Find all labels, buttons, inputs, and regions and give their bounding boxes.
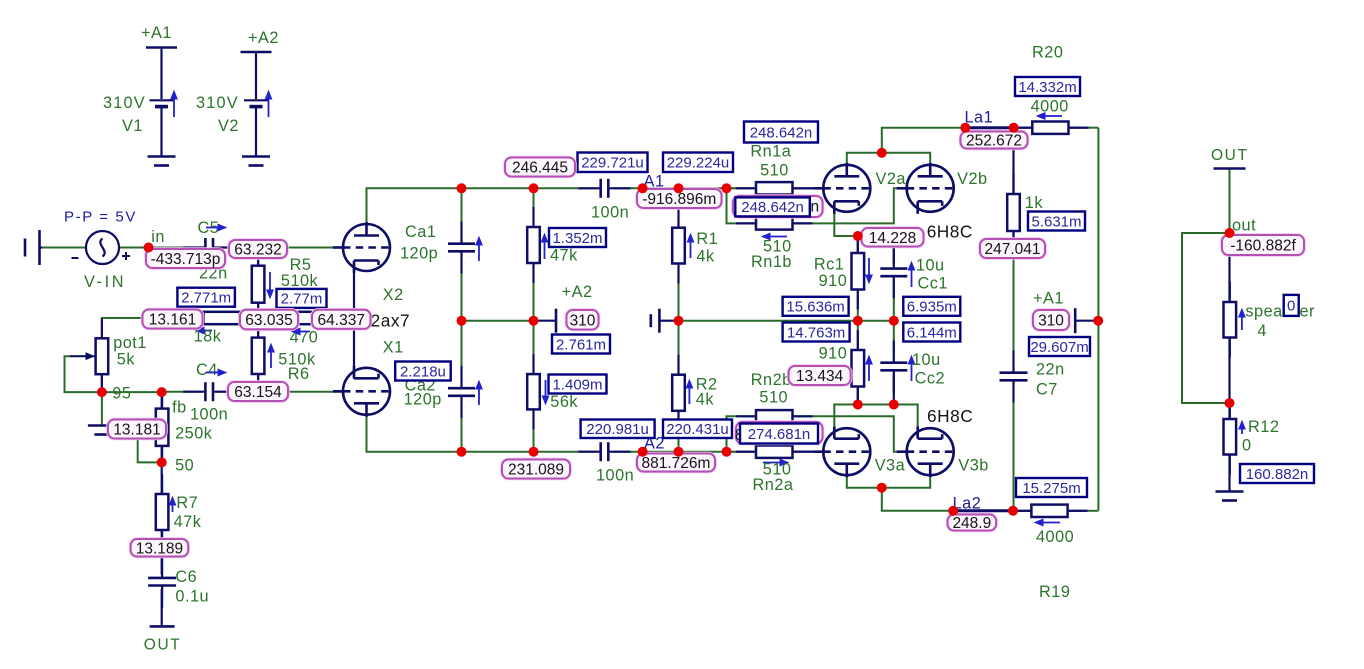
svg-text:95: 95 <box>112 385 131 403</box>
svg-text:910: 910 <box>819 272 848 290</box>
wire bottom rail 100n to Rn2a <box>613 451 757 453</box>
battery V1 arrow <box>171 91 177 117</box>
wire speaker to R12 node <box>1228 338 1230 404</box>
capacitor 100n top <box>579 187 631 189</box>
wire Rn1a to V2a grid <box>793 187 825 189</box>
wire pot row to 18k row <box>102 318 356 338</box>
svg-text:14.332m: 14.332m <box>1018 79 1076 96</box>
tube V3b 6H8C <box>897 426 954 477</box>
tie OUT bottom-left <box>150 625 175 628</box>
charge box 220.431u <box>663 420 732 439</box>
svg-text:0: 0 <box>1242 437 1252 455</box>
svg-text:Rn2b: Rn2b <box>751 371 792 389</box>
wire 47k column <box>533 188 535 227</box>
voltage box -916.896m <box>637 189 722 208</box>
wire R1 column <box>678 188 680 227</box>
svg-text:510: 510 <box>759 389 788 407</box>
current box 160.882n <box>1240 464 1314 483</box>
tie OUT top-right <box>1214 167 1246 170</box>
voltage box 14.228 <box>862 228 924 247</box>
voltage box 13.434 <box>789 366 851 385</box>
svg-text:229.224u: 229.224u <box>667 155 730 172</box>
svg-text:13.161: 13.161 <box>149 312 196 329</box>
svg-text:P-P = 5V: P-P = 5V <box>64 209 137 226</box>
svg-text:6H8C: 6H8C <box>927 222 973 242</box>
junction fb top <box>157 387 167 397</box>
svg-text:1k: 1k <box>1025 194 1044 212</box>
wire 56k column <box>533 321 535 374</box>
battery V1 <box>150 48 174 156</box>
svg-text:13.189: 13.189 <box>136 540 183 557</box>
svg-text:5k: 5k <box>117 351 136 369</box>
capacitor Cc2 <box>893 341 895 393</box>
svg-text:252.672: 252.672 <box>966 133 1022 150</box>
junction mid Cc <box>889 316 899 326</box>
resistor R1 <box>677 208 679 284</box>
svg-text:fb: fb <box>172 399 187 417</box>
wire 13.189 to C6 <box>161 548 163 575</box>
resistor Rn2a <box>736 451 813 453</box>
svg-text:881.726m: 881.726m <box>642 455 711 472</box>
voltage box 246.445 <box>505 158 575 177</box>
wire X2 X1 cathode link <box>353 261 355 379</box>
node box hidden Rn2 <box>736 422 823 444</box>
junction V2 plates <box>877 148 887 158</box>
junction La1 left <box>960 123 970 133</box>
current box 2.761m <box>552 335 610 354</box>
voltage box 310 +A1 <box>1033 310 1069 330</box>
junction bottom Ca2 <box>457 447 467 457</box>
junction A2 a <box>638 447 648 457</box>
ground input <box>25 230 42 265</box>
wire pot wiper loop <box>65 356 98 392</box>
node box hidden Rn1 <box>733 196 823 217</box>
current box 248.642n top <box>744 122 818 143</box>
svg-text:910: 910 <box>819 345 848 363</box>
svg-text:4000: 4000 <box>1036 528 1074 546</box>
resistor 47k upper <box>532 207 534 283</box>
svg-text:310: 310 <box>570 312 596 329</box>
svg-text:10u: 10u <box>912 351 941 369</box>
capacitor Ca1 <box>460 222 462 274</box>
svg-text:R1: R1 <box>696 230 718 248</box>
wire node fb to C4 <box>162 391 202 393</box>
junction top rail Ca1 <box>457 183 467 193</box>
resistor Rc1 910 <box>857 233 859 310</box>
voltage box 63.154 <box>228 382 288 401</box>
tube V2a 6H8C <box>813 163 870 214</box>
resistor speaker <box>1229 282 1231 358</box>
wire C5 to X2 grid <box>217 247 343 249</box>
resistor R7 <box>161 474 163 550</box>
node in dot <box>144 243 154 253</box>
current box 15.636m <box>783 297 849 316</box>
wire top rail X2 plate to 100n <box>367 188 597 225</box>
wire node 50 to R7 <box>161 462 163 494</box>
svg-text:+A2: +A2 <box>562 283 593 301</box>
svg-text:47k: 47k <box>174 513 202 531</box>
source V-IN <box>86 231 119 264</box>
wire R6 leads <box>257 318 259 338</box>
junction +A1 rail <box>1093 316 1103 326</box>
wire La1 to R20 lead <box>1014 127 1033 129</box>
svg-text:14.763m: 14.763m <box>787 324 845 341</box>
wire Cc1 column <box>893 238 895 265</box>
junction out node <box>1225 228 1235 238</box>
tie +A1 battery <box>146 46 177 49</box>
svg-text:spea: spea <box>1245 303 1283 321</box>
current box 6.935m <box>903 297 960 316</box>
junction bottom 56k <box>529 447 539 457</box>
svg-text:in: in <box>151 228 165 246</box>
voltage box 247.041 <box>980 239 1045 258</box>
wire out node to speaker <box>1228 233 1230 302</box>
svg-text:1.352m: 1.352m <box>552 230 602 247</box>
wire pot bottom to node 95 <box>101 374 103 392</box>
charge box 229.224u <box>663 153 733 173</box>
svg-text:1.409m: 1.409m <box>552 376 602 393</box>
svg-text:220.431u: 220.431u <box>666 421 729 438</box>
current box 1.352m <box>549 228 606 247</box>
svg-text:22n: 22n <box>1036 361 1065 379</box>
svg-text:248.642n: 248.642n <box>750 124 813 141</box>
tube V2b 6H8C <box>897 163 954 214</box>
current box 14.332m <box>1015 77 1080 96</box>
svg-text:231.089: 231.089 <box>508 462 564 479</box>
wire right rail <box>1097 128 1099 511</box>
junction node 95 <box>97 387 107 397</box>
tube V3a 6H8C <box>813 426 870 477</box>
svg-text:2.771m: 2.771m <box>181 290 231 307</box>
svg-text:510k: 510k <box>281 272 319 290</box>
svg-text:5.631m: 5.631m <box>1031 213 1081 230</box>
battery V2 arrow <box>265 91 271 117</box>
capacitor Ca2 <box>460 366 462 418</box>
svg-text:246.445: 246.445 <box>512 160 568 177</box>
svg-text:310: 310 <box>1038 313 1064 330</box>
wire Rn2a to V3a grid <box>793 451 825 453</box>
junction La2 right <box>1008 506 1018 516</box>
svg-text:V2b: V2b <box>957 170 987 188</box>
svg-text:13.181: 13.181 <box>113 422 160 439</box>
voltage box 231.089 <box>502 460 570 479</box>
svg-text:510: 510 <box>760 162 789 180</box>
svg-text:2.218u: 2.218u <box>400 363 446 380</box>
svg-text:4k: 4k <box>696 391 715 409</box>
svg-text:V2: V2 <box>218 117 239 135</box>
junction mid Ca <box>457 316 467 326</box>
svg-text:V2a: V2a <box>876 170 907 188</box>
svg-text:160.882n: 160.882n <box>1246 466 1309 483</box>
wire R5 leads <box>257 258 259 266</box>
voltage box -160.882f <box>1222 235 1304 255</box>
voltage box 252.672 <box>961 132 1028 150</box>
current box 2.771m <box>177 288 235 307</box>
wire mid rail right <box>679 320 894 322</box>
wire Rc2 column <box>857 321 859 350</box>
voltage box 63.035 <box>240 310 298 330</box>
inductor La2 <box>953 509 1013 512</box>
resistor R2 <box>677 355 679 431</box>
junction mid 47k56k <box>529 316 539 326</box>
svg-text:Cc1: Cc1 <box>918 275 948 293</box>
svg-text:15.636m: 15.636m <box>786 299 844 316</box>
voltage box 13.189 <box>131 539 189 557</box>
junction A2 Rn2 <box>722 447 732 457</box>
svg-text:4k: 4k <box>696 248 715 266</box>
junction node 14.228 <box>853 231 863 241</box>
wire V3 cathode rail <box>834 405 917 427</box>
wire V3 plates join <box>847 477 930 488</box>
wire node 95 to ground <box>101 392 103 425</box>
voltage box 63.232 <box>229 240 287 259</box>
junction Rc2 top <box>853 400 863 410</box>
charge box 220.981u <box>581 420 655 439</box>
svg-text:120p: 120p <box>400 245 438 263</box>
svg-text:18k: 18k <box>194 328 222 346</box>
voltage box -433.713p <box>146 249 225 268</box>
resistor 18k <box>184 317 260 319</box>
ground V2 <box>242 157 270 166</box>
wire Rn1b to V2b grid <box>793 188 908 223</box>
wire R20 to right rail <box>1069 127 1087 129</box>
tie +A1 mid <box>1074 308 1077 333</box>
ground right <box>1216 492 1244 501</box>
capacitor Cc1 <box>893 246 895 298</box>
wire node 95 to node fb <box>102 391 162 393</box>
junction mid ground <box>674 316 684 326</box>
current box 2.77m <box>277 289 327 308</box>
svg-text:248.642n: 248.642n <box>741 199 804 216</box>
svg-text:15.275m: 15.275m <box>1022 480 1080 497</box>
current box 248.642n mid <box>735 197 810 216</box>
resistor Rc2 910 <box>857 330 859 407</box>
svg-text:10u: 10u <box>916 257 945 275</box>
svg-text:C7: C7 <box>1036 381 1058 399</box>
svg-text:229.721u: 229.721u <box>581 155 644 172</box>
svg-text:4000: 4000 <box>1031 98 1069 116</box>
voltage box 13.161 <box>143 310 203 329</box>
wire R19 to right rail <box>1068 510 1086 512</box>
wire 1k column <box>1012 128 1014 194</box>
svg-text:63.035: 63.035 <box>245 312 292 329</box>
ground pot <box>88 426 116 435</box>
svg-text:64.337: 64.337 <box>318 312 365 329</box>
current box 14.763m <box>783 323 850 342</box>
voltage box 310 +A2 <box>567 310 599 330</box>
current box 2.218u <box>395 362 451 381</box>
wire R12 leads <box>1228 403 1230 419</box>
svg-text:6H8C: 6H8C <box>927 406 973 426</box>
svg-text:56k: 56k <box>550 393 578 411</box>
svg-text:Rn1b: Rn1b <box>751 253 792 271</box>
svg-text:Rn1a: Rn1a <box>750 143 791 161</box>
capacitor 100n bottom <box>579 451 631 453</box>
wire Rn2b to V3b grid <box>793 416 908 451</box>
wire La2 to R19 lead <box>1013 510 1031 512</box>
svg-text:X1: X1 <box>383 339 404 357</box>
wire plate join to La1 rail <box>882 128 966 153</box>
current box 274.681n <box>740 424 818 444</box>
junction A1 R1 <box>674 183 684 193</box>
wire plate join to La2 rail <box>882 488 953 511</box>
wire C7 to La2 rail <box>1013 385 1015 511</box>
tube X2 12ax7 <box>333 222 390 273</box>
wire Cc2 column <box>893 321 895 359</box>
svg-text:pot1: pot1 <box>113 334 147 352</box>
voltage box 881.726m <box>637 454 715 473</box>
junction Cc2 bottom <box>889 400 899 410</box>
svg-text:La1: La1 <box>965 109 994 127</box>
svg-text:er: er <box>1300 303 1316 321</box>
svg-text:120p: 120p <box>404 391 442 409</box>
junction A1 Rn1 <box>722 183 732 193</box>
svg-text:R12: R12 <box>1248 418 1279 436</box>
svg-text:V3b: V3b <box>958 457 988 475</box>
wire top rail 100n to Rn1a <box>613 187 757 189</box>
resistor R20 4000 <box>1012 127 1088 129</box>
svg-text:220.981u: 220.981u <box>586 421 649 438</box>
resistor R6 <box>257 318 259 394</box>
resistor 1k <box>1012 174 1014 251</box>
svg-text:4: 4 <box>1257 322 1267 340</box>
wire bottom rail X1 plate to 100n <box>367 414 597 452</box>
resistor R19 4000 <box>1011 510 1087 512</box>
current box 5.631m <box>1028 212 1085 231</box>
svg-text:47k: 47k <box>550 247 578 265</box>
capacitor C4 <box>183 391 235 393</box>
ground mid <box>651 309 674 333</box>
wire C6 to OUT tie <box>161 589 163 626</box>
svg-text:63.232: 63.232 <box>234 242 281 259</box>
resistor Rn2b <box>736 415 813 417</box>
ground V1 <box>148 157 176 166</box>
tie +A2 battery <box>241 51 272 54</box>
junction A2 R2 <box>674 447 684 457</box>
wire speaker bypass loop <box>1182 233 1230 403</box>
wire mid rail left <box>462 320 539 322</box>
wire fb resistor leads <box>161 392 163 409</box>
svg-text:29.607m: 29.607m <box>1030 339 1088 356</box>
wire source to node in to C5 <box>119 247 202 249</box>
svg-text:247.041: 247.041 <box>984 241 1040 258</box>
svg-text:-916.896m: -916.896m <box>642 191 716 208</box>
wire OUT-right tie down to out node <box>1229 169 1231 233</box>
svg-text:63.154: 63.154 <box>234 384 282 401</box>
svg-text:310V: 310V <box>103 94 146 112</box>
svg-text:0.1u: 0.1u <box>175 588 209 606</box>
svg-text:C6: C6 <box>175 568 197 586</box>
resistor Rn1a <box>736 187 813 189</box>
capacitor C6 <box>161 556 163 608</box>
svg-text:OUT: OUT <box>144 637 182 654</box>
svg-text:-160.882f: -160.882f <box>1230 238 1296 255</box>
resistor Rn1b <box>736 222 813 224</box>
svg-text:+A2: +A2 <box>248 29 279 47</box>
svg-text:V3a: V3a <box>875 457 906 475</box>
current box 15.275m <box>1016 478 1087 497</box>
svg-text:Rn2a: Rn2a <box>753 476 794 494</box>
voltage box 13.181 <box>108 420 166 439</box>
wire Rn1 left pair join <box>727 188 757 223</box>
svg-text:out: out <box>1232 217 1256 235</box>
svg-text:X2: X2 <box>383 286 404 304</box>
svg-text:Ca1: Ca1 <box>405 223 436 241</box>
svg-text:14.228: 14.228 <box>869 230 916 247</box>
voltage box 248.9 <box>948 515 997 533</box>
svg-text:+A1: +A1 <box>1033 290 1064 308</box>
current box 29.607m <box>1029 337 1090 356</box>
svg-text:50: 50 <box>175 457 194 475</box>
wire Rn2 left pair join <box>727 416 757 451</box>
svg-text:+A1: +A1 <box>141 24 172 42</box>
current box 1.409m <box>549 375 607 394</box>
current box 6.144m <box>903 323 960 342</box>
junction R12 top <box>1225 398 1235 408</box>
svg-text:R19: R19 <box>1039 583 1070 601</box>
potentiometer pot1 <box>101 318 103 394</box>
svg-text:R7: R7 <box>176 494 198 512</box>
svg-text:310V: 310V <box>196 94 239 112</box>
resistor 56k <box>532 354 534 429</box>
wire R2 column <box>678 321 680 375</box>
battery V2 <box>244 52 268 156</box>
svg-text:R20: R20 <box>1032 44 1063 62</box>
svg-text:C4: C4 <box>196 361 218 379</box>
junction mid Rc <box>853 316 863 326</box>
wire V2a cathode to node <box>834 213 853 236</box>
junction A1 a <box>638 183 648 193</box>
capacitor C7 <box>1012 351 1014 403</box>
resistor R12 <box>1229 399 1231 475</box>
svg-text:R6: R6 <box>288 365 310 383</box>
wire Ca column <box>461 188 463 240</box>
svg-text:OUT: OUT <box>1211 147 1249 164</box>
svg-text:100n: 100n <box>591 204 629 222</box>
inductor La1 <box>965 126 1013 129</box>
svg-text:2.77m: 2.77m <box>281 291 323 308</box>
junction node 50 <box>157 457 167 467</box>
value box 0 speaker <box>1284 295 1299 316</box>
svg-text:248.9: 248.9 <box>952 515 991 532</box>
wire ground to node 50 <box>138 429 162 462</box>
svg-text:13.434: 13.434 <box>796 368 844 385</box>
junction top rail 47k <box>529 183 539 193</box>
svg-text:Rc1: Rc1 <box>814 256 844 274</box>
svg-text:6.144m: 6.144m <box>907 324 957 341</box>
svg-text:6.935m: 6.935m <box>907 299 957 316</box>
junction V3 plates <box>877 483 887 493</box>
wire R7 to 13.189 <box>161 530 163 547</box>
charge box 229.721u <box>578 153 648 173</box>
svg-text:V1: V1 <box>122 117 143 135</box>
junction La1 right <box>1009 123 1019 133</box>
wire Rc1 column <box>857 236 859 253</box>
svg-text:100n: 100n <box>596 467 634 485</box>
wire V2 plates join <box>847 153 930 166</box>
junction La2 left <box>948 506 958 516</box>
svg-text:Cc2: Cc2 <box>915 370 945 388</box>
svg-text:2.761m: 2.761m <box>556 336 606 353</box>
svg-text:250k: 250k <box>175 425 213 443</box>
capacitor C5 <box>183 246 235 248</box>
svg-text:0: 0 <box>1287 298 1295 315</box>
voltage box 64.337 <box>312 310 371 329</box>
tie +A2 mid <box>539 320 557 322</box>
resistor 470 <box>267 317 343 319</box>
svg-text:n: n <box>811 199 820 216</box>
resistor R5 <box>257 246 259 323</box>
